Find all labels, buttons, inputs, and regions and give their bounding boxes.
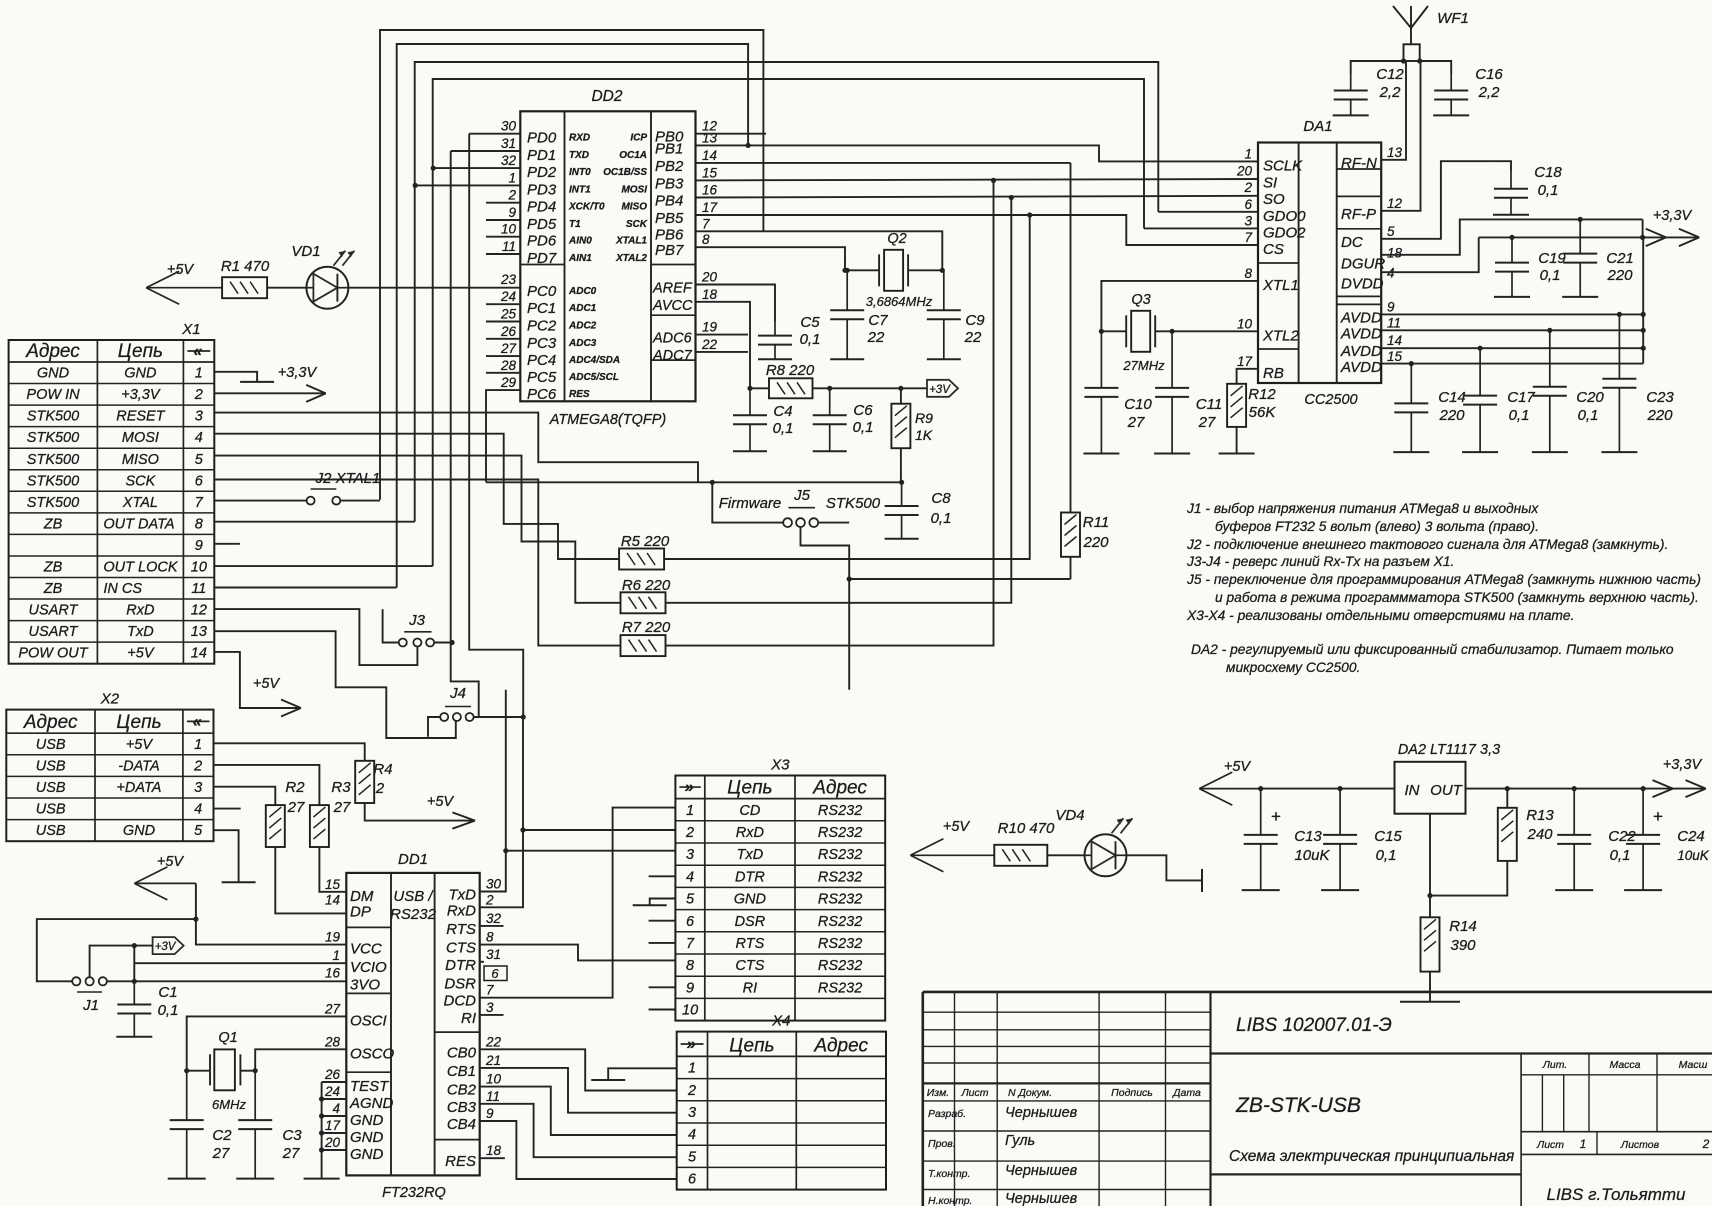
svg-text:Гуль: Гуль — [1005, 1133, 1035, 1149]
svg-text:1: 1 — [332, 948, 340, 963]
svg-text:CB2: CB2 — [447, 1082, 477, 1099]
svg-text:1: 1 — [508, 170, 516, 185]
svg-text:27: 27 — [324, 1001, 341, 1016]
svg-text:XCK/T0: XCK/T0 — [568, 202, 605, 213]
svg-text:1: 1 — [1244, 146, 1252, 161]
svg-text:2: 2 — [687, 1083, 696, 1099]
svg-text:11: 11 — [486, 1089, 500, 1104]
svg-text:2: 2 — [375, 780, 385, 797]
svg-text:PD3: PD3 — [527, 181, 557, 198]
svg-text:USB /: USB / — [393, 888, 434, 905]
svg-text:STK500: STK500 — [27, 473, 79, 489]
svg-text:56K: 56K — [1249, 404, 1277, 421]
svg-text:C6: C6 — [853, 402, 873, 419]
svg-text:DD2: DD2 — [591, 88, 622, 105]
svg-text:17: 17 — [1237, 354, 1253, 369]
svg-text:J3-J4 - реверс линий Rx-Tx на: J3-J4 - реверс линий Rx-Tx на разъем X1. — [1186, 554, 1454, 569]
svg-text:5: 5 — [686, 892, 695, 908]
svg-text:5: 5 — [1387, 224, 1395, 239]
svg-text:ADC2: ADC2 — [568, 321, 597, 332]
svg-text:0,1: 0,1 — [1578, 407, 1599, 424]
svg-text:PC2: PC2 — [527, 318, 557, 335]
svg-text:Разраб.: Разраб. — [928, 1108, 966, 1120]
svg-text:14: 14 — [191, 646, 207, 662]
svg-text:GND: GND — [350, 1112, 384, 1129]
svg-text:C15: C15 — [1374, 828, 1402, 845]
wire R3 to DM — [319, 847, 346, 892]
svg-text:0,1: 0,1 — [800, 331, 821, 348]
svg-text:OSCI: OSCI — [350, 1012, 387, 1029]
svg-text:USB: USB — [36, 780, 66, 796]
svg-text:«: « — [193, 343, 202, 360]
svg-text:STK500: STK500 — [826, 495, 881, 512]
svg-text:Лист: Лист — [960, 1087, 988, 1099]
svg-text:15: 15 — [702, 165, 718, 180]
svg-text:LIBS 102007.01-Э: LIBS 102007.01-Э — [1236, 1015, 1392, 1036]
svg-text:DVDD: DVDD — [1341, 276, 1384, 293]
svg-text:CTS: CTS — [735, 958, 764, 974]
svg-text:+5V: +5V — [427, 794, 455, 810]
svg-text:6: 6 — [1244, 197, 1252, 212]
wire X3 pin4 stub — [649, 875, 676, 877]
svg-text:CB4: CB4 — [447, 1116, 476, 1133]
wire X1 pin1 GND — [214, 372, 257, 382]
svg-text:C5: C5 — [800, 314, 820, 331]
svg-text:14: 14 — [702, 148, 717, 163]
svg-text:+5V: +5V — [157, 854, 185, 870]
wire +5V to DA2 IN — [1260, 788, 1394, 790]
svg-text:AREF: AREF — [652, 281, 693, 297]
wire R2 to DP — [275, 847, 346, 913]
svg-text:0,1: 0,1 — [1610, 847, 1631, 864]
svg-text:+3V: +3V — [929, 384, 951, 396]
svg-text:XTAL1: XTAL1 — [615, 236, 647, 247]
svg-text:22: 22 — [701, 337, 718, 352]
wire X3 pin5 GND — [650, 899, 676, 906]
svg-text:27MHz: 27MHz — [1122, 358, 1165, 373]
wire R8 right to +3V — [813, 387, 928, 389]
svg-text:ADC5/SCL: ADC5/SCL — [568, 372, 619, 383]
svg-text:GND: GND — [350, 1146, 384, 1163]
wire DCD to X3 row1 — [480, 808, 676, 998]
svg-text:USART: USART — [29, 603, 79, 619]
svg-text:240: 240 — [1526, 826, 1553, 843]
svg-text:POW IN: POW IN — [26, 387, 80, 403]
wire PD4 stub — [486, 202, 520, 204]
svg-text:DP: DP — [350, 903, 371, 920]
svg-text:INT0: INT0 — [569, 167, 591, 178]
svg-text:USART: USART — [29, 624, 79, 640]
svg-text:15: 15 — [1387, 349, 1403, 364]
wire J3 right — [434, 642, 452, 644]
svg-text:GND: GND — [124, 366, 156, 382]
svg-text:22: 22 — [964, 329, 982, 346]
wire X2 pin3 to R2 — [214, 787, 276, 805]
svg-text:J4: J4 — [449, 685, 466, 702]
svg-text:9: 9 — [1387, 299, 1395, 314]
svg-text:OC1A: OC1A — [619, 150, 647, 161]
svg-text:Адрес: Адрес — [812, 778, 867, 799]
wire loop4 OUT LOCK INT0 to GDO2 — [433, 79, 1144, 566]
svg-text:0,1: 0,1 — [1509, 407, 1530, 424]
svg-text:-DATA: -DATA — [118, 758, 159, 774]
svg-text:8: 8 — [686, 958, 694, 974]
svg-text:MISO: MISO — [621, 202, 647, 213]
svg-text:11: 11 — [502, 239, 516, 254]
svg-text:16: 16 — [325, 965, 341, 980]
svg-text:27: 27 — [500, 341, 517, 356]
svg-text:20: 20 — [1236, 164, 1253, 179]
svg-text:PD4: PD4 — [527, 199, 556, 216]
wire loop3 OUT DATA INT1 to GDO0 — [415, 62, 1159, 522]
svg-text:PB2: PB2 — [655, 158, 684, 175]
svg-text:микросхему CC2500.: микросхему CC2500. — [1226, 660, 1360, 675]
wire CB4 to X4 row6 — [480, 1121, 677, 1179]
svg-text:RS232: RS232 — [818, 847, 862, 863]
svg-text:1K: 1K — [915, 427, 933, 443]
svg-text:9: 9 — [486, 1106, 494, 1121]
wire PB2 line — [696, 162, 1071, 164]
svg-text:Дата: Дата — [1172, 1087, 1201, 1099]
svg-text:+3,3V: +3,3V — [1663, 757, 1703, 773]
wire XTL1 to Q3 — [1101, 281, 1258, 331]
svg-text:XTAL2: XTAL2 — [615, 253, 647, 264]
svg-text:C3: C3 — [282, 1127, 302, 1144]
svg-text:RS232: RS232 — [818, 869, 862, 885]
wire R13 bottom to R14 — [1430, 861, 1507, 896]
svg-text:6: 6 — [195, 473, 204, 489]
wire PD7 stub — [486, 253, 520, 255]
wire X1 pin3 RESET — [214, 413, 698, 483]
svg-text:GND: GND — [37, 366, 69, 382]
svg-text:WF1: WF1 — [1437, 10, 1469, 27]
svg-text:C13: C13 — [1294, 828, 1322, 845]
wire OSCI to Q1 — [187, 1016, 347, 1070]
svg-text:10: 10 — [486, 1072, 502, 1087]
svg-text:RB: RB — [1263, 365, 1284, 382]
svg-text:Q2: Q2 — [887, 231, 906, 247]
svg-text:R13: R13 — [1526, 807, 1554, 824]
svg-text:28: 28 — [324, 1034, 341, 1049]
svg-text:RS232: RS232 — [818, 914, 862, 930]
svg-text:DA2 LT1117 3,3: DA2 LT1117 3,3 — [1398, 742, 1500, 758]
svg-text:Цепь: Цепь — [729, 1035, 774, 1056]
svg-text:16: 16 — [702, 183, 718, 198]
svg-text:X2: X2 — [100, 691, 120, 708]
svg-text:R2: R2 — [285, 779, 305, 796]
svg-text:буферов FT232 5 вольт (влево): буферов FT232 5 вольт (влево) 3 вольта (… — [1215, 519, 1539, 534]
svg-text:C24: C24 — [1677, 828, 1705, 845]
wire RxD vertical up — [522, 717, 524, 830]
svg-text:RI: RI — [743, 980, 758, 996]
svg-text:XTAL: XTAL — [122, 495, 158, 511]
svg-text:Цепь: Цепь — [727, 778, 772, 799]
svg-text:ICP: ICP — [630, 133, 647, 144]
svg-text:14: 14 — [1387, 333, 1402, 348]
svg-text:22: 22 — [867, 329, 885, 346]
wire RESET net rail — [486, 481, 902, 483]
svg-text:X3-X4 - реализованы отдельными: X3-X4 - реализованы отдельными отверстия… — [1186, 608, 1574, 623]
svg-text:27: 27 — [212, 1145, 230, 1162]
svg-text:31: 31 — [486, 947, 501, 962]
svg-text:27: 27 — [1127, 414, 1145, 431]
svg-text:DD1: DD1 — [398, 851, 428, 868]
wire TxD to X3 row3 — [480, 851, 506, 892]
wire R1 to VD1 — [267, 287, 307, 289]
svg-text:ADC6: ADC6 — [652, 331, 693, 347]
wire GDO0 stub — [1158, 211, 1258, 213]
svg-text:R3: R3 — [331, 779, 351, 796]
svg-text:ADC3: ADC3 — [568, 338, 597, 349]
wire X2 pin2 to R3 — [214, 765, 320, 805]
svg-text:N Докум.: N Докум. — [1008, 1087, 1052, 1099]
power +5V arrow at X1 pin14 — [214, 652, 301, 708]
svg-text:»: » — [687, 1036, 696, 1053]
svg-text:10: 10 — [682, 1003, 698, 1019]
svg-text:RI: RI — [461, 1010, 476, 1027]
wire X1 pin10 OUT LOCK — [214, 565, 432, 567]
svg-text:TxD: TxD — [449, 887, 477, 904]
svg-text:PB3: PB3 — [655, 175, 684, 192]
svg-text:13: 13 — [1387, 145, 1403, 160]
svg-text:1: 1 — [195, 366, 203, 382]
wire DTR stub — [480, 961, 484, 963]
svg-text:21: 21 — [485, 1053, 501, 1068]
svg-text:24: 24 — [324, 1084, 340, 1099]
svg-text:3VO: 3VO — [350, 976, 380, 993]
svg-text:ADC7: ADC7 — [652, 348, 693, 364]
svg-text:Н.контр.: Н.контр. — [928, 1195, 972, 1206]
wire AVCC to R8 — [696, 302, 770, 389]
svg-text:PC5: PC5 — [527, 369, 557, 386]
wire R5 right to PB5 — [664, 215, 1029, 559]
svg-text:6: 6 — [688, 1172, 697, 1188]
svg-text:8: 8 — [702, 232, 710, 247]
svg-text:12: 12 — [1387, 196, 1403, 211]
wire X2 pin1 to R4 — [214, 743, 365, 761]
svg-text:7: 7 — [195, 495, 204, 511]
wire R11 top PB2 — [1070, 163, 1072, 513]
svg-text:Т.контр.: Т.контр. — [928, 1168, 970, 1180]
svg-text:TXD: TXD — [569, 150, 589, 161]
svg-text:11: 11 — [1387, 315, 1401, 330]
wire DC to C18 — [1381, 161, 1493, 239]
svg-text:T1: T1 — [569, 219, 581, 230]
svg-text:RES: RES — [569, 389, 590, 400]
wire AVDD bus vertical — [1642, 237, 1644, 363]
wire GDO2 stub — [1144, 227, 1258, 229]
svg-text:+3,3V: +3,3V — [121, 387, 161, 403]
svg-text:STK500: STK500 — [27, 495, 79, 511]
svg-text:PB5: PB5 — [655, 210, 684, 227]
svg-text:TxD: TxD — [127, 624, 154, 640]
svg-text:2: 2 — [1243, 180, 1252, 195]
title block right table — [1520, 1054, 1522, 1206]
svg-text:ZB-STK-USB: ZB-STK-USB — [1235, 1094, 1361, 1117]
svg-text:STK500: STK500 — [27, 430, 79, 446]
svg-text:C23: C23 — [1646, 389, 1674, 406]
svg-text:»: » — [685, 779, 694, 796]
svg-text:X1: X1 — [181, 321, 200, 338]
svg-text:0,1: 0,1 — [773, 420, 794, 437]
wire X3 pin10 stub — [649, 1009, 676, 1011]
svg-text:RS232: RS232 — [818, 980, 862, 996]
svg-text:32: 32 — [486, 911, 502, 926]
svg-text:VCC: VCC — [350, 941, 382, 958]
svg-text:GND: GND — [734, 892, 766, 908]
wire X3 pin7 stub — [649, 942, 676, 944]
svg-text:9: 9 — [508, 205, 516, 220]
wire PB4 SO — [696, 196, 1259, 198]
wire CTS to X3 row8 — [480, 945, 676, 961]
wire PC2 stub — [486, 321, 520, 323]
wire R9 bottom — [900, 448, 902, 482]
svg-text:Лист: Лист — [1536, 1139, 1564, 1151]
svg-text:C1: C1 — [158, 984, 177, 1001]
title block doc number — [1211, 1052, 1712, 1054]
svg-text:XTL1: XTL1 — [1262, 277, 1299, 294]
svg-text:C10: C10 — [1124, 396, 1152, 413]
svg-text:+5V: +5V — [253, 676, 281, 692]
wire RF-P to antenna — [1381, 61, 1420, 211]
wire PB7 to Q2 left — [696, 247, 846, 270]
svg-text:Лит.: Лит. — [1542, 1059, 1568, 1071]
wire PD2 stub — [433, 167, 520, 169]
svg-text:29: 29 — [500, 375, 517, 390]
svg-text:CTS: CTS — [446, 940, 476, 957]
wire +5V to VCC — [196, 883, 346, 944]
svg-text:31: 31 — [501, 136, 516, 151]
svg-text:RTS: RTS — [446, 921, 476, 938]
svg-text:4: 4 — [688, 1127, 696, 1143]
wire J5 left — [712, 482, 783, 522]
svg-text:17: 17 — [325, 1118, 341, 1133]
wire AVDD 11 — [1381, 329, 1643, 331]
wire J2 right — [340, 500, 380, 502]
svg-text:SCK: SCK — [626, 219, 648, 230]
svg-text:390: 390 — [1450, 937, 1476, 954]
svg-text:9: 9 — [686, 980, 694, 996]
wire PC4 stub — [486, 355, 520, 357]
wire X1 pin4 MOSI to R5 — [214, 434, 619, 559]
svg-text:DCD: DCD — [444, 993, 477, 1010]
svg-text:8: 8 — [1244, 266, 1252, 281]
svg-text:RxD: RxD — [447, 902, 476, 919]
svg-text:VCIO: VCIO — [350, 959, 387, 976]
wire RTS stub — [480, 925, 504, 927]
power flag +3V near J1 — [153, 937, 184, 954]
svg-text:STK500: STK500 — [27, 409, 79, 425]
svg-text:+DATA: +DATA — [116, 780, 161, 796]
svg-text:0,1: 0,1 — [853, 419, 874, 436]
svg-text:Чернышев: Чернышев — [1005, 1163, 1078, 1179]
wire PB1 to SCLK — [696, 145, 1259, 161]
svg-text:2,2: 2,2 — [1379, 84, 1402, 101]
svg-text:11: 11 — [191, 581, 206, 597]
svg-text:6: 6 — [491, 966, 499, 981]
svg-text:USB: USB — [36, 823, 66, 839]
svg-text:PC1: PC1 — [527, 300, 556, 317]
svg-text:2: 2 — [194, 387, 203, 403]
svg-text:CB3: CB3 — [447, 1099, 477, 1116]
wire CB0 to X4 row2 — [480, 1049, 677, 1090]
svg-text:30: 30 — [486, 877, 502, 892]
svg-text:C12: C12 — [1376, 66, 1404, 83]
wire CB2 to X4 row4 — [480, 1087, 677, 1135]
wire J3 right down to J4 — [451, 643, 479, 718]
svg-text:9: 9 — [195, 538, 203, 554]
svg-text:0,1: 0,1 — [1540, 267, 1561, 284]
svg-text:POW OUT: POW OUT — [18, 646, 88, 662]
svg-text:J3: J3 — [408, 612, 426, 629]
svg-text:R7 220: R7 220 — [622, 619, 671, 636]
wire J4 right — [474, 716, 524, 718]
svg-text:RS232: RS232 — [818, 825, 862, 841]
svg-text:R11: R11 — [1083, 514, 1109, 531]
svg-text:INT1: INT1 — [569, 184, 591, 195]
svg-text:3: 3 — [486, 1000, 494, 1015]
wire X3 pin9 stub — [649, 986, 676, 988]
svg-text:ADC0: ADC0 — [568, 286, 597, 297]
wire AVDD 9 — [1381, 313, 1643, 315]
title block frame — [923, 991, 1712, 994]
svg-text:6: 6 — [686, 914, 695, 930]
wire PB5 to CS — [696, 215, 1259, 245]
svg-text:25: 25 — [500, 307, 517, 322]
svg-text:OSCO: OSCO — [350, 1045, 395, 1062]
svg-text:C2: C2 — [212, 1127, 232, 1144]
svg-text:C8: C8 — [931, 490, 951, 507]
wire VD4 to gnd — [1127, 855, 1202, 880]
wire R6 right to PB4 — [666, 198, 1012, 603]
svg-text:OUT LOCK: OUT LOCK — [103, 560, 178, 576]
wire RxD to X3 row2 — [480, 830, 523, 907]
svg-text:1: 1 — [194, 737, 202, 753]
wire PD5 stub — [486, 219, 520, 221]
svg-text:AIN0: AIN0 — [568, 236, 592, 247]
jumper J1 — [72, 977, 80, 985]
svg-text:Адрес: Адрес — [813, 1035, 868, 1056]
svg-text:220: 220 — [1082, 534, 1109, 551]
svg-text:PD5: PD5 — [527, 216, 557, 233]
svg-text:RESET: RESET — [116, 409, 165, 425]
svg-text:MISO: MISO — [122, 452, 159, 468]
svg-text:GDO2: GDO2 — [1263, 224, 1306, 241]
svg-text:0,1: 0,1 — [931, 510, 952, 527]
wire PB6 to Q2 right — [696, 231, 943, 270]
wire ADC7 stub — [696, 351, 749, 353]
svg-text:20: 20 — [324, 1135, 341, 1150]
wire PD1 to J3 — [451, 150, 521, 152]
svg-text:DM: DM — [350, 888, 374, 905]
svg-text:SO: SO — [1263, 191, 1285, 208]
svg-text:27: 27 — [333, 799, 351, 816]
wire CB3 to X4 row5 — [480, 1104, 677, 1157]
svg-text:RXD: RXD — [569, 133, 590, 144]
svg-text:10: 10 — [1237, 316, 1253, 331]
svg-text:ADC4/SDA: ADC4/SDA — [568, 355, 620, 366]
wire rail down — [1642, 219, 1644, 237]
wire OSCO to Q1 — [255, 1049, 346, 1070]
svg-text:R14: R14 — [1449, 918, 1477, 935]
power flag +3V near R8 — [927, 380, 958, 397]
wire X2 pin4 stub — [214, 808, 241, 810]
svg-text:DSR: DSR — [444, 975, 476, 992]
svg-text:+: + — [1271, 807, 1281, 826]
wire PC5 stub — [486, 372, 520, 374]
svg-text:C9: C9 — [965, 312, 985, 329]
svg-text:26: 26 — [324, 1067, 341, 1082]
